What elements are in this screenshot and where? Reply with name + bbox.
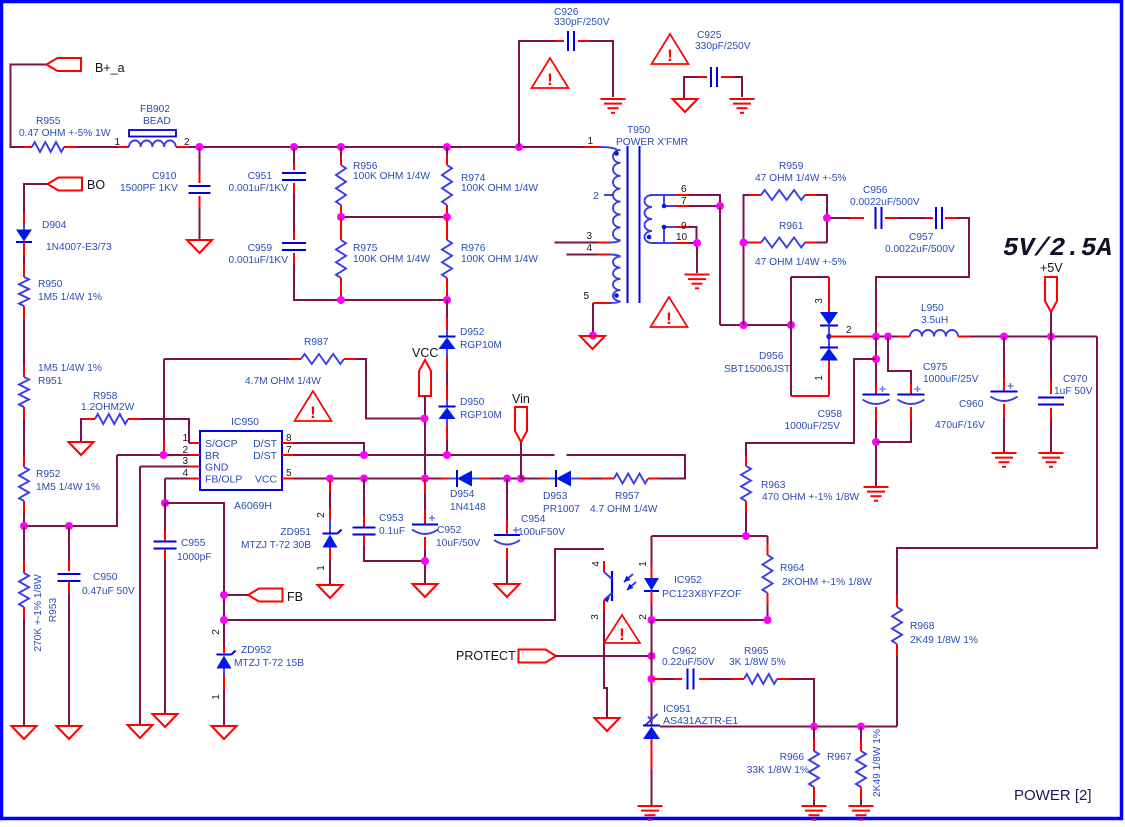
op-amp IC950 body [200,431,282,490]
svg-text:!: ! [310,403,316,422]
svg-text:2: 2 [638,614,649,620]
svg-text:0.1uF: 0.1uF [379,526,405,537]
chassis ground for ZD952 [212,726,237,739]
IC950 pin 1 stub [189,442,200,444]
svg-text:C960: C960 [959,399,984,410]
svg-text:S/OCP: S/OCP [205,438,238,450]
svg-text:6: 6 [681,184,687,195]
earth ground for C970 [1039,452,1064,454]
ferrite bead FB902 [118,146,129,148]
svg-text:C925: C925 [697,30,722,41]
svg-text:10: 10 [676,232,688,243]
svg-text:RGP10M: RGP10M [460,340,502,351]
svg-text:47 OHM 1/4W +-5%: 47 OHM 1/4W +-5% [755,173,846,184]
wire BO to left rail [24,184,47,212]
svg-text:100K OHM 1/4W: 100K OHM 1/4W [461,183,538,194]
warning triangle near C926 [532,58,569,88]
shunt regulator IC951 [646,714,658,725]
snubber middle rail [341,216,447,218]
T950 core [627,146,629,303]
svg-text:Vin: Vin [512,392,530,406]
svg-text:R976: R976 [461,243,486,254]
diode D952 [446,300,448,318]
capacitor C910 [199,147,201,172]
svg-text:MTZJ T-72 15B: MTZJ T-72 15B [234,658,304,669]
svg-text:1N4148: 1N4148 [450,502,486,513]
chassis ground for opto pin3 [595,718,620,731]
phase dot primary top [614,151,619,156]
svg-text:1: 1 [114,137,120,148]
off-page connector B+_a [47,58,82,71]
chassis ground for C955 [153,714,178,727]
svg-text:C954: C954 [521,514,546,525]
svg-text:T950: T950 [627,125,651,136]
wire FB/OLP pin4 [165,478,189,480]
T950 pin 2 stub [604,194,614,196]
svg-text:3: 3 [814,298,825,304]
svg-text:1000pF: 1000pF [177,552,212,563]
resistor R968 [896,595,898,607]
svg-text:VCC: VCC [412,346,438,360]
svg-text:4: 4 [591,561,602,567]
T950 pin 10 lead [652,242,676,244]
wire VCC down [424,396,426,479]
svg-text:!: ! [666,309,672,328]
capacitor C955 [164,503,166,530]
chassis ground for C950 [57,726,82,739]
secondary bottom rail [720,324,791,326]
wire R987 left down to pin2 [163,359,165,441]
svg-text:470uF/16V: 470uF/16V [935,420,985,431]
phase dot secondary [647,235,652,240]
svg-text:C958: C958 [818,409,843,420]
wire IC951 anode to ground [651,739,653,770]
earth ground for C925 right [730,98,755,100]
wire C959 down to snubber bottom rail [294,264,341,300]
D956 output wire [829,336,876,338]
svg-text:AS431AZTR-E1: AS431AZTR-E1 [663,715,738,727]
ground for C910 [187,240,212,253]
svg-text:R987: R987 [304,337,329,348]
svg-text:47 OHM 1/4W +-5%: 47 OHM 1/4W +-5% [755,257,846,268]
svg-text:D956: D956 [759,351,784,362]
secondary vertical wire to output rail [719,206,721,325]
feedback loop right rail [897,337,1097,596]
svg-text:R967: R967 [827,752,852,763]
earth ground for IC951 [638,805,663,807]
svg-text:ZD951: ZD951 [280,527,311,538]
capacitor C957 [898,217,925,219]
wire pin6 to junction [689,195,720,206]
vertical wire opto pin2 down [651,620,653,725]
svg-text:1: 1 [316,565,327,571]
capacitor C925 [684,77,698,98]
svg-text:270K +-1% 1/8W: 270K +-1% 1/8W [33,574,44,652]
svg-text:MTZJ T-72 30B: MTZJ T-72 30B [241,540,311,551]
svg-text:330pF/250V: 330pF/250V [554,17,610,28]
chassis ground for C952 [413,584,438,597]
svg-text:1M5 1/4W 1%: 1M5 1/4W 1% [38,292,102,303]
svg-text:R958: R958 [93,391,118,402]
wire pin2 to left node row [24,455,117,526]
svg-text:R964: R964 [780,563,805,574]
svg-text:POWER [2]: POWER [2] [1014,787,1092,804]
svg-text:C970: C970 [1063,374,1088,385]
svg-text:2K49 1/8W 1%: 2K49 1/8W 1% [910,635,978,646]
svg-text:7: 7 [286,445,292,456]
capacitor C962 [652,678,664,680]
svg-text:330pF/250V: 330pF/250V [695,41,751,52]
svg-text:5V/2.5A: 5V/2.5A [1003,233,1112,263]
zener diode ZD952 [223,646,225,653]
IC950 pin 7 stub [282,454,293,456]
diode D904 [23,212,25,224]
wire C951 to C959 [293,194,295,233]
optocoupler IC952 LED [651,536,653,565]
resistor R975 [340,217,342,240]
resistor R951 [23,365,25,377]
wire pin9 down to pin10 node [689,227,697,243]
wire D950 to drain row [446,419,448,426]
capacitor C926 [519,41,556,147]
svg-text:R952: R952 [36,469,61,480]
node dots on HV rail [196,143,204,151]
svg-text:0.001uF/1KV: 0.001uF/1KV [229,255,289,266]
wire PROTECT to opto [556,655,652,657]
optocoupler IC952 phototransistor [603,561,605,572]
resistor R956 [340,147,342,155]
earth ground for C926 [601,98,626,100]
svg-text:FB902: FB902 [140,104,170,115]
svg-text:100K OHM 1/4W: 100K OHM 1/4W [353,254,430,265]
svg-text:1: 1 [814,375,825,381]
chassis ground for T950 pin5 [580,336,605,349]
wire to R963 [746,359,876,455]
T950 primary winding 4-5 [613,257,621,302]
diode D954 [441,478,449,480]
svg-text:1.2OHM2W: 1.2OHM2W [81,402,135,413]
svg-text:R953: R953 [48,597,59,622]
wire R987 to VCC node [356,359,425,419]
svg-text:C962: C962 [672,646,697,657]
wire +5V to rail [1050,312,1052,337]
svg-text:10uF/50V: 10uF/50V [436,538,480,549]
wire R950 to R951 [23,318,25,365]
resistor R976 [446,217,448,240]
svg-text:FB/OLP: FB/OLP [205,474,242,486]
capacitor C970 [1050,337,1052,380]
wire R957 up to T950 pin4 [567,455,686,479]
svg-text:D952: D952 [460,327,485,338]
svg-text:7: 7 [681,196,687,207]
svg-text:!: ! [547,70,553,89]
wire R955 to FB902 [76,146,118,148]
earth ground for T950 pin10 [685,274,710,276]
svg-text:C952: C952 [437,525,462,536]
diode D950 [446,400,448,407]
wire R958 left to ground [81,419,83,441]
wire T950 pin5 to ground [592,303,594,336]
resistor R974 [446,147,448,155]
svg-text:PC123X8YFZOF: PC123X8YFZOF [662,588,741,600]
svg-text:C959: C959 [248,243,273,254]
capacitor C960 [1003,337,1005,379]
wire Vin to row [520,442,522,479]
svg-text:1uF 50V: 1uF 50V [1054,386,1093,397]
svg-text:5: 5 [286,468,292,479]
wire GND pin3 to ground [140,466,189,468]
svg-text:0.0022uF/500V: 0.0022uF/500V [850,197,920,208]
resistor R965 [709,678,732,680]
resistor R959 [744,195,750,325]
resistor R961 [744,242,750,244]
resistor R958 [95,414,128,424]
earth ground for R966 [802,805,827,807]
warning triangle below T950 [651,297,688,327]
svg-text:0.47uF 50V: 0.47uF 50V [82,586,135,597]
svg-text:0.001uF/1KV: 0.001uF/1KV [229,183,289,194]
capacitor C954 [506,479,508,521]
wire pin4 node to FB column [165,503,224,646]
svg-text:3: 3 [586,231,592,242]
svg-text:2: 2 [846,325,852,336]
svg-text:3: 3 [590,614,601,620]
svg-text:2KOHM +-1% 1/8W: 2KOHM +-1% 1/8W [782,577,872,588]
capacitor C959 [293,233,295,240]
earth ground for R967 [849,805,874,807]
svg-text:FB: FB [287,590,303,604]
svg-text:3.5uH: 3.5uH [921,315,948,326]
chassis ground for C954 [495,584,520,597]
T950 pin 5 lead [610,301,621,303]
T950 secondary winding 6-10 [645,195,653,243]
IC950 pin 5 stub [282,478,293,480]
svg-text:ZD952: ZD952 [241,645,272,656]
dual schottky D956 [791,276,829,278]
light arrows [624,574,633,582]
svg-text:1000uF/25V: 1000uF/25V [784,421,840,432]
phase dot primary bottom [614,293,619,298]
inductor L950 [898,336,910,338]
resistor R950 [23,265,25,277]
svg-text:D/ST: D/ST [253,438,278,450]
wire D952 to D950 [446,349,448,357]
wire opto pin2 to R964 [652,619,768,621]
svg-text:2: 2 [211,629,222,635]
warning triangle near IC950 [295,391,332,421]
svg-text:B+_a: B+_a [95,61,125,75]
svg-text:0.47 OHM +-5% 1W: 0.47 OHM +-5% 1W [19,128,111,139]
svg-text:R963: R963 [761,480,786,491]
snubber bottom rail [341,299,447,301]
svg-text:R951: R951 [38,376,63,387]
svg-text:4.7 OHM 1/4W: 4.7 OHM 1/4W [590,504,658,515]
R964 top rail [652,535,768,537]
resistor R964 [767,536,769,543]
svg-text:4: 4 [182,468,188,479]
svg-text:100K OHM 1/4W: 100K OHM 1/4W [353,171,430,182]
output rail after L950 [970,336,1097,338]
svg-text:C950: C950 [93,572,118,583]
svg-text:PR1007: PR1007 [543,504,580,515]
svg-text:3K 1/8W 5%: 3K 1/8W 5% [729,657,786,668]
svg-text:BO: BO [87,178,105,192]
svg-text:1: 1 [638,561,649,567]
wire pin7 to junction [689,205,720,207]
IC950 pin 3 stub [189,466,200,468]
resistor R987 [164,358,289,360]
svg-text:1M5 1/4W 1%: 1M5 1/4W 1% [38,363,102,374]
svg-text:1500PF 1KV: 1500PF 1KV [120,183,178,194]
svg-text:8: 8 [286,433,292,444]
TL431 cathode row [660,726,897,728]
svg-text:R955: R955 [36,116,61,127]
T950 primary winding 1-3 [613,150,621,240]
svg-text:C953: C953 [379,513,404,524]
svg-text:C951: C951 [248,171,273,182]
wire pin10 to ground [689,243,697,273]
svg-text:!: ! [619,625,625,644]
capacitor C956 [827,217,850,219]
capacitor C952 [424,479,426,495]
svg-text:0.0022uF/500V: 0.0022uF/500V [885,244,955,255]
wire R952 to node row [23,513,25,526]
wire R958 to IC950 pin1 [140,419,189,443]
svg-text:D950: D950 [460,397,485,408]
capacitor C951 [293,147,295,163]
svg-text:4: 4 [586,243,592,254]
svg-text:VCC: VCC [255,474,278,486]
main HV rail wire [188,146,585,148]
resistor R967 [860,727,862,740]
svg-text:C957: C957 [909,232,934,243]
svg-text:C975: C975 [923,362,948,373]
svg-text:PROTECT: PROTECT [456,649,516,663]
svg-text:D/ST: D/ST [253,450,278,462]
svg-text:A6069H: A6069H [234,500,272,512]
svg-text:9: 9 [681,221,687,232]
wire D954 to C954 node [490,478,521,480]
svg-text:R950: R950 [38,279,63,290]
wire R951 to R952 [23,419,25,455]
off-page connector FB [224,594,248,596]
svg-text:1000uF/25V: 1000uF/25V [923,374,979,385]
wire from B+_a to R955 [11,65,47,148]
svg-text:100K OHM 1/4W: 100K OHM 1/4W [461,254,538,265]
svg-text:IC950: IC950 [231,416,259,428]
svg-text:R959: R959 [779,161,804,172]
capacitor C953 [363,479,365,516]
svg-text:D904: D904 [42,220,67,231]
chassis ground for R958 [69,442,94,455]
svg-text:33K 1/8W 1%: 33K 1/8W 1% [747,765,809,776]
diode D953 [521,478,540,480]
chassis ground for IC950 GND [128,725,153,738]
output rail to L950 [876,336,898,338]
wire D904 to R950 [23,256,25,265]
T950 pin 4 lead [610,255,621,257]
VCC row wire pin5 [293,478,441,480]
svg-text:1: 1 [182,433,188,444]
chassis ground for left rail [12,726,37,739]
resistor R963 [745,455,747,466]
svg-text:4.7M OHM 1/4W: 4.7M OHM 1/4W [245,376,321,387]
svg-text:100uF50V: 100uF50V [518,527,565,538]
svg-text:2K49 1/8W 1%: 2K49 1/8W 1% [872,729,883,797]
svg-text:1N4007-E3/73: 1N4007-E3/73 [46,242,112,253]
svg-text:RGP10M: RGP10M [460,410,502,421]
svg-text:1: 1 [587,136,593,147]
svg-text:470 OHM +-1% 1/8W: 470 OHM +-1% 1/8W [762,492,859,503]
T950 pin 3 lead [610,240,621,242]
capacitor C950 [68,526,70,560]
svg-text:D954: D954 [450,489,475,500]
svg-text:BR: BR [205,450,220,462]
svg-text:R975: R975 [353,243,378,254]
resistor R957 [591,478,602,480]
chassis ground for ZD951 [318,585,343,598]
IC950 pin 8 stub [282,442,293,444]
earth ground for C958/C975 [864,486,889,488]
svg-text:R965: R965 [744,646,769,657]
svg-text:3: 3 [182,456,188,467]
svg-text:0.22uF/50V: 0.22uF/50V [662,657,715,668]
svg-text:SBT15006JST: SBT15006JST [724,364,790,375]
T950 pin 9 tap [663,227,665,243]
svg-text:R957: R957 [615,491,640,502]
chassis ground for C925 left [673,99,698,112]
resistor R952 [23,455,25,467]
svg-text:R968: R968 [910,621,935,632]
earth ground for C960 [992,452,1017,454]
svg-text:GND: GND [205,462,229,474]
svg-text:IC952: IC952 [674,574,702,586]
wire BR row pin2 [117,454,189,456]
drain row wire pins 7-8 to T950 pin3 [293,443,364,455]
T950 pin 7 tap [664,195,676,206]
svg-text:C956: C956 [863,185,888,196]
wire opto emitter to ground [604,611,607,717]
svg-text:!: ! [667,46,673,65]
warning triangle near opto [604,615,640,643]
zener diode ZD951 [329,479,331,492]
capacitor C958 [875,337,877,385]
svg-text:1: 1 [211,694,222,700]
capacitor C975 [888,337,911,385]
svg-text:C955: C955 [181,538,206,549]
svg-text:BEAD: BEAD [143,116,171,127]
warning triangle near C925 [652,34,689,64]
svg-text:R961: R961 [779,221,804,232]
svg-text:2: 2 [593,190,599,202]
svg-text:R966: R966 [780,752,805,763]
svg-text:IC951: IC951 [663,703,691,715]
svg-text:1M5 1/4W 1%: 1M5 1/4W 1% [36,482,100,493]
resistor R953 [23,526,25,561]
svg-text:5: 5 [583,291,589,302]
IC950 pin 4 stub [189,478,200,480]
svg-text:C910: C910 [152,171,177,182]
svg-text:D953: D953 [543,491,568,502]
T950 pin 1 lead [585,146,600,148]
T950 pin 6 lead [652,194,676,196]
svg-text:2: 2 [316,512,327,518]
resistor R966 [813,727,815,740]
resistor R955 [24,146,32,148]
IC950 pin 2 stub [189,454,200,456]
long feedback wire to optocoupler [224,549,604,620]
svg-text:L950: L950 [921,303,944,314]
